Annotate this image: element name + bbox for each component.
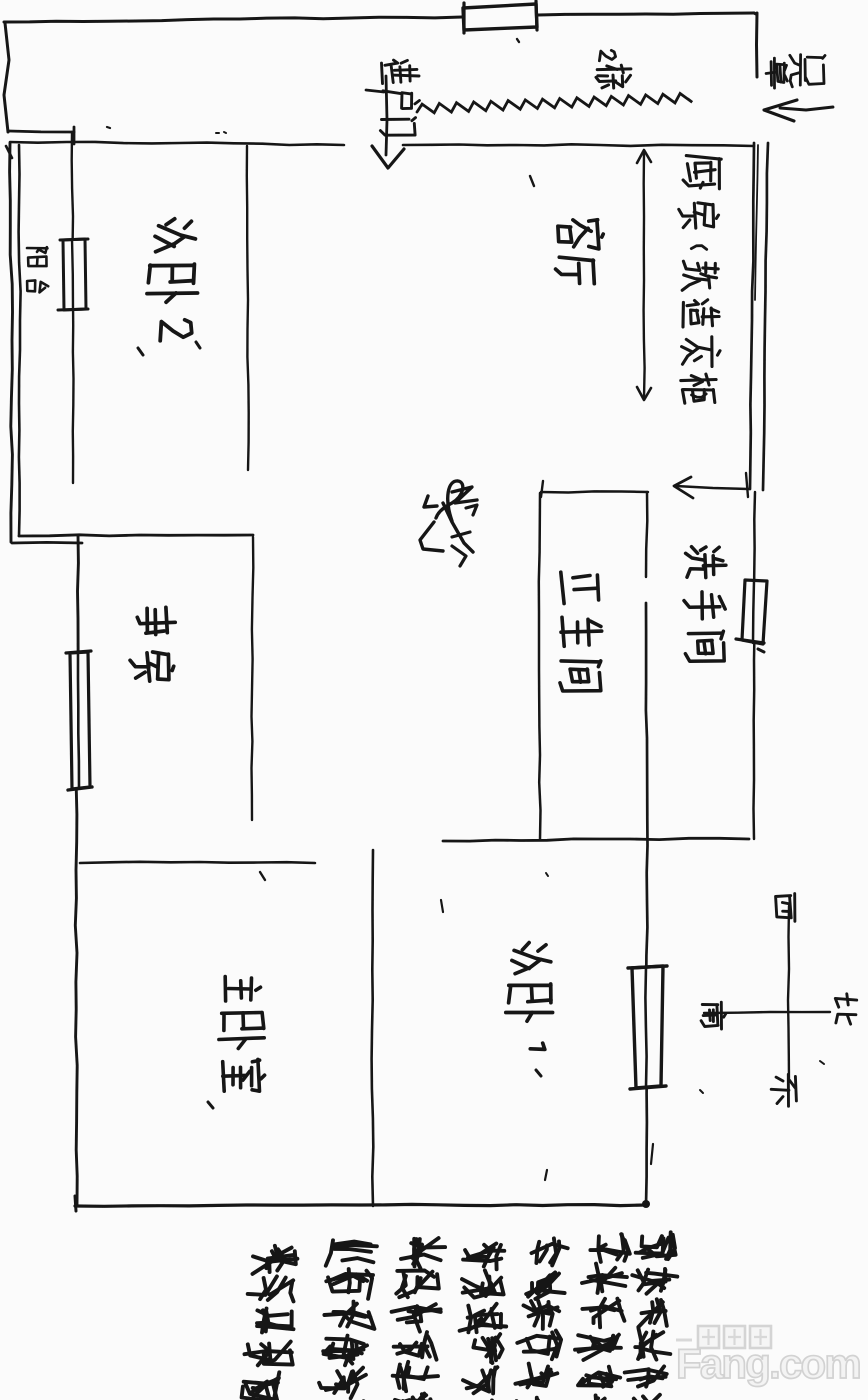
tick near master door bbox=[260, 872, 265, 880]
compass cross bbox=[704, 906, 830, 1082]
svg-text:Fang.com: Fang.com bbox=[676, 1340, 860, 1387]
wall balcony top bbox=[6, 127, 74, 158]
wall north y144 right segment bbox=[403, 144, 754, 146]
wall study north y536 bbox=[12, 535, 253, 543]
arrow unit door left bbox=[764, 100, 833, 121]
window bedroom1 east bbox=[628, 966, 667, 1089]
label entry 进户门 bbox=[380, 60, 419, 135]
wall right exterior lower x755 bbox=[754, 492, 756, 839]
wall top exterior bbox=[4, 13, 754, 22]
notes column 7 bbox=[624, 1232, 677, 1400]
label bedroom2 次卧2 bbox=[138, 219, 200, 355]
notes column 5 bbox=[513, 1238, 567, 1400]
window balcony divider bbox=[58, 239, 88, 310]
wall bathroom north y492 bbox=[541, 481, 648, 497]
wall left exterior double bbox=[10, 143, 21, 542]
wall bedroom2 east x247 bbox=[247, 146, 249, 470]
label study 书房 bbox=[130, 607, 175, 681]
label dining 餐厅 bbox=[420, 481, 477, 566]
compass label 东 bbox=[771, 1074, 796, 1106]
wall master north y862 bbox=[80, 862, 315, 863]
watermark fang.com bbox=[676, 1326, 860, 1387]
notes column 6 bbox=[571, 1234, 630, 1400]
wall south exterior y1205 bbox=[75, 1196, 650, 1211]
stray specks bbox=[107, 127, 824, 1180]
wall bedroom1 north y840 bbox=[443, 838, 749, 841]
wall lobby corner bbox=[754, 13, 757, 77]
arrow living room dimension bbox=[637, 150, 651, 400]
notes column 2 bbox=[319, 1240, 377, 1400]
arrow entry door down bbox=[366, 76, 404, 168]
label balcony 阳台 bbox=[27, 247, 48, 292]
wall right exterior double bbox=[750, 143, 768, 490]
compass label 西 bbox=[776, 894, 795, 922]
arrow washroom left bbox=[674, 473, 749, 498]
label living room 客厅 bbox=[556, 220, 604, 284]
wall study east x253 bbox=[252, 537, 254, 820]
label unit door 单元门 bbox=[766, 55, 825, 89]
wall north y144 left segment bbox=[10, 142, 344, 145]
window washroom east bbox=[736, 580, 767, 652]
zigzag corridor boundary bbox=[417, 94, 692, 113]
wall bathroom west x540 bbox=[539, 493, 541, 839]
label washroom 洗手间 bbox=[684, 547, 726, 662]
compass label 北 bbox=[835, 994, 856, 1024]
window top (living-room north window) bbox=[463, 1, 537, 42]
label kitchen column 厨房（改造成衣帽间柜） bbox=[679, 156, 721, 404]
notes column 1 bbox=[242, 1246, 298, 1400]
wall balcony divider x72 bbox=[72, 132, 74, 483]
label bathroom 卫生间 bbox=[560, 572, 602, 691]
window study west bbox=[66, 651, 92, 790]
notes column 3 bbox=[388, 1238, 445, 1400]
label stairs 2梯 bbox=[596, 50, 631, 88]
notes column 4 bbox=[458, 1244, 507, 1400]
wall bathroom east x646 bbox=[646, 492, 648, 1205]
wall left exterior upper bbox=[4, 23, 9, 132]
label master 主卧室 bbox=[208, 977, 265, 1109]
wall west x77 bbox=[75, 535, 78, 1205]
wall master east x373 bbox=[372, 850, 374, 1206]
label bedroom1 次卧1 bbox=[506, 943, 553, 1076]
compass label 南 bbox=[701, 1002, 726, 1029]
